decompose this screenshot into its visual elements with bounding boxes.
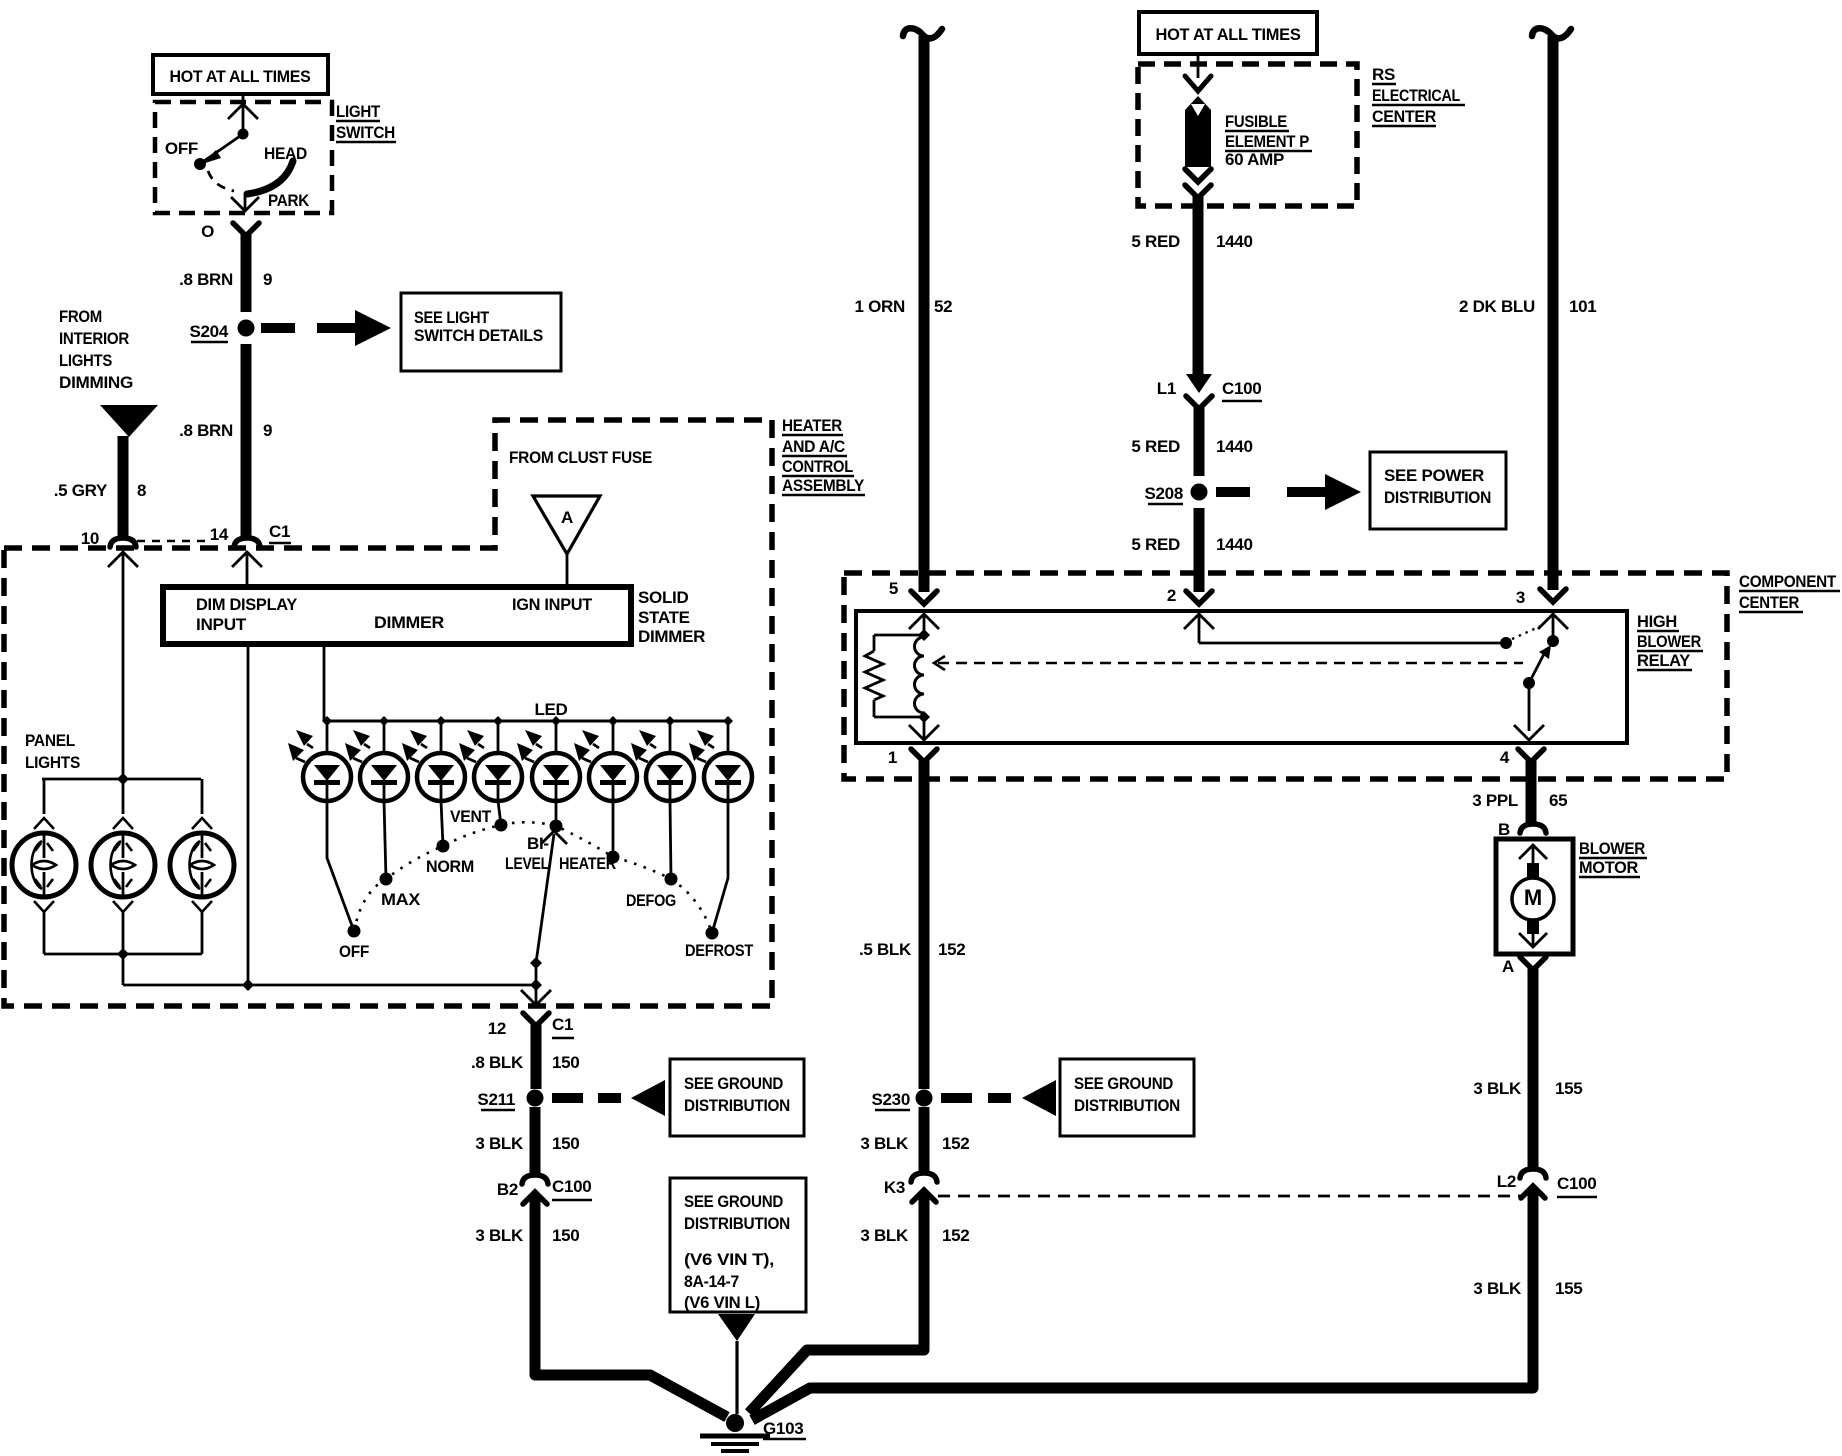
svg-text:LEVEL: LEVEL	[505, 854, 549, 873]
svg-text:5 RED: 5 RED	[1131, 437, 1180, 456]
relay resistor (parallel with coil)	[874, 634, 924, 637]
svg-text:PANEL: PANEL	[25, 731, 75, 750]
svg-text:AND A/C: AND A/C	[782, 437, 845, 456]
svg-text:IGN INPUT: IGN INPUT	[512, 595, 593, 614]
relay coil	[915, 637, 925, 713]
LED 6 cathode wire to contact	[612, 801, 615, 857]
HOT AT ALL TIMES box (left)	[153, 55, 328, 94]
svg-text:HEATER: HEATER	[782, 416, 842, 435]
wire 5 RED 1440 (3)	[1194, 508, 1205, 592]
svg-text:LED: LED	[534, 700, 567, 719]
svg-text:DISTRIBUTION: DISTRIBUTION	[1384, 488, 1491, 507]
svg-text:B: B	[1498, 820, 1510, 839]
dashed lead and arrow from ground distribution (S211)	[552, 1093, 583, 1103]
LED 3	[402, 716, 465, 801]
svg-text:FROM: FROM	[59, 307, 102, 326]
svg-text:.8 BRN: .8 BRN	[179, 421, 233, 440]
connector B2 C100	[522, 1175, 548, 1184]
svg-text:(V6 VIN L): (V6 VIN L)	[684, 1293, 760, 1312]
wire .8 BRN 9 upper	[241, 234, 252, 312]
svg-text:A: A	[561, 508, 573, 527]
triangle to ground ref	[718, 1314, 755, 1341]
svg-text:150: 150	[552, 1053, 579, 1072]
svg-text:FROM CLUST FUSE: FROM CLUST FUSE	[509, 448, 652, 467]
relay pin 1 connector	[911, 749, 937, 762]
svg-text:RELAY: RELAY	[1637, 651, 1691, 670]
LED 7 cathode wire to contact	[670, 801, 671, 879]
svg-text:3 BLK: 3 BLK	[1473, 1079, 1522, 1098]
svg-text:4: 4	[1500, 748, 1510, 767]
svg-text:DISTRIBUTION: DISTRIBUTION	[1074, 1096, 1180, 1115]
svg-text:MOTOR: MOTOR	[1579, 858, 1638, 877]
svg-text:LIGHT: LIGHT	[336, 102, 381, 121]
svg-text:1: 1	[888, 748, 897, 767]
svg-text:SOLID: SOLID	[638, 588, 688, 607]
LED 7	[631, 716, 694, 801]
LED 4	[459, 716, 522, 801]
dashed lead and arrow to see power distribution	[1216, 487, 1250, 497]
svg-text:C100: C100	[1557, 1174, 1596, 1193]
svg-text:INPUT: INPUT	[196, 615, 247, 634]
SEE GROUND DISTRIBUTION box (right)	[1060, 1059, 1194, 1136]
svg-text:C1: C1	[269, 522, 290, 541]
LED 1 cathode wire to contact	[327, 801, 354, 931]
LED 2	[345, 716, 408, 801]
svg-text:LIGHTS: LIGHTS	[59, 351, 112, 370]
svg-text:150: 150	[552, 1226, 579, 1245]
wire 2 DK BLU 101 with continuation squiggle	[1532, 28, 1571, 38]
svg-text:BLOWER: BLOWER	[1637, 632, 1701, 651]
svg-text:VENT: VENT	[450, 807, 492, 826]
LED 3 cathode wire to contact	[441, 801, 443, 846]
svg-text:2 DK BLU: 2 DK BLU	[1459, 297, 1535, 316]
svg-text:INTERIOR: INTERIOR	[59, 329, 129, 348]
svg-text:DISTRIBUTION: DISTRIBUTION	[684, 1096, 790, 1115]
heater and A/C control assembly dashed box	[4, 420, 772, 1006]
svg-text:5: 5	[889, 579, 898, 598]
svg-text:3 BLK: 3 BLK	[860, 1134, 909, 1153]
svg-text:DIM DISPLAY: DIM DISPLAY	[196, 595, 298, 614]
svg-text:MAX: MAX	[381, 890, 421, 909]
dashed lead and arrow to see light switch details	[261, 323, 295, 333]
switch wiper arrow	[536, 834, 554, 963]
component center dashed box	[844, 573, 1727, 779]
light switch internals	[242, 94, 245, 134]
splice S230	[916, 1090, 933, 1107]
relay switch dotted open-position line	[1512, 625, 1543, 639]
svg-text:1440: 1440	[1216, 535, 1253, 554]
svg-text:OFF: OFF	[165, 139, 198, 158]
svg-text:150: 150	[552, 1134, 579, 1153]
HOT AT ALL TIMES box (right)	[1139, 12, 1317, 54]
RS electrical center dashed box	[1138, 64, 1357, 206]
svg-text:8A-14-7: 8A-14-7	[684, 1272, 739, 1291]
svg-text:SEE LIGHT: SEE LIGHT	[414, 308, 490, 327]
svg-text:OFF: OFF	[339, 942, 369, 961]
svg-text:12: 12	[488, 1019, 506, 1038]
splice S204	[238, 320, 255, 337]
svg-text:HOT AT ALL TIMES: HOT AT ALL TIMES	[1156, 25, 1301, 44]
wire from panel lights to dimmer ground rail	[122, 954, 125, 985]
panel lamp 1	[12, 779, 76, 954]
svg-text:101: 101	[1569, 297, 1596, 316]
splice S208	[1191, 484, 1208, 501]
svg-text:S208: S208	[1144, 484, 1183, 503]
svg-text:DISTRIBUTION: DISTRIBUTION	[684, 1214, 790, 1233]
svg-text:CENTER: CENTER	[1372, 107, 1436, 126]
panel lamp 2	[91, 779, 155, 954]
SEE POWER DISTRIBUTION box	[1370, 452, 1506, 529]
svg-text:9: 9	[263, 421, 272, 440]
svg-text:A: A	[1502, 957, 1514, 976]
relay pin 4 internal arrow	[1528, 683, 1531, 731]
svg-text:O: O	[201, 222, 214, 241]
svg-text:SEE GROUND: SEE GROUND	[1074, 1074, 1173, 1093]
svg-text:STATE: STATE	[638, 608, 690, 627]
svg-text:8: 8	[137, 481, 146, 500]
wire 3 PPL 65	[1526, 760, 1537, 825]
relay coil input arrow (pin 5)	[909, 614, 939, 629]
panel lights top bus	[42, 778, 201, 781]
svg-text:60 AMP: 60 AMP	[1225, 150, 1284, 169]
svg-text:RS: RS	[1372, 65, 1395, 84]
solid state dimmer box	[163, 587, 631, 644]
svg-text:COMPONENT: COMPONENT	[1739, 572, 1837, 591]
svg-text:HEATER: HEATER	[559, 854, 616, 873]
rotary switch dotted arc	[354, 822, 712, 933]
LED 1	[288, 716, 351, 801]
svg-text:SWITCH: SWITCH	[336, 123, 395, 142]
svg-text:G103: G103	[763, 1419, 803, 1438]
blower motor internals	[1519, 845, 1547, 859]
svg-text:S204: S204	[189, 322, 228, 341]
connector K3	[911, 1173, 937, 1182]
svg-text:(V6 VIN T),: (V6 VIN T),	[684, 1250, 774, 1269]
svg-text:HIGH: HIGH	[1637, 612, 1677, 631]
svg-text:9: 9	[263, 270, 272, 289]
splice S211	[527, 1090, 544, 1107]
connector A below blower motor	[1520, 957, 1546, 970]
svg-text:PARK: PARK	[268, 191, 310, 210]
svg-text:CONTROL: CONTROL	[782, 457, 853, 476]
svg-text:SWITCH DETAILS: SWITCH DETAILS	[414, 326, 543, 345]
wire 5 RED 1440 (2)	[1194, 407, 1205, 476]
svg-text:S230: S230	[871, 1090, 910, 1109]
wire 3 BLK 152 upper	[919, 1107, 930, 1172]
svg-text:52: 52	[934, 297, 952, 316]
LED bus wire	[324, 720, 728, 723]
dashed lead and arrow from ground distribution (S230)	[941, 1093, 972, 1103]
svg-text:1440: 1440	[1216, 437, 1253, 456]
wire .5 BLK 152	[919, 760, 930, 1089]
svg-text:BI-: BI-	[527, 834, 549, 853]
LED 4 cathode wire to contact	[498, 801, 501, 825]
LED 5 cathode wire to contact	[555, 801, 558, 826]
svg-text:3 BLK: 3 BLK	[1473, 1279, 1522, 1298]
wire .8 BRN 9 lower	[241, 344, 252, 539]
LED 2 cathode wire to contact	[384, 801, 386, 879]
LED 8 cathode wire to contact	[712, 801, 728, 933]
relay pin 2 internal arrow and wire	[1184, 614, 1214, 629]
blower motor box	[1496, 839, 1573, 954]
LED 8	[689, 716, 752, 801]
svg-text:SEE GROUND: SEE GROUND	[684, 1192, 783, 1211]
svg-text:L2: L2	[1497, 1172, 1516, 1191]
wire .8 BLK 150	[531, 1024, 542, 1089]
svg-text:.8 BLK: .8 BLK	[471, 1053, 524, 1072]
svg-text:155: 155	[1555, 1079, 1582, 1098]
wire 5 RED 1440 (1)	[1193, 196, 1204, 377]
svg-text:3 PPL: 3 PPL	[1472, 791, 1518, 810]
svg-text:152: 152	[942, 1226, 969, 1245]
svg-text:B2: B2	[497, 1180, 518, 1199]
svg-text:65: 65	[1549, 791, 1567, 810]
wire 3 BLK 150 upper	[530, 1107, 541, 1174]
wire 1 ORN 52 with continuation squiggle	[903, 28, 942, 38]
SEE GROUND DISTRIBUTION box (left)	[670, 1059, 804, 1136]
wire .5 GRY 8	[118, 436, 129, 540]
svg-text:SEE POWER: SEE POWER	[1384, 466, 1484, 485]
svg-text:HEAD: HEAD	[264, 144, 307, 163]
svg-text:C100: C100	[552, 1177, 591, 1196]
svg-text:5 RED: 5 RED	[1131, 535, 1180, 554]
svg-text:K3: K3	[884, 1178, 905, 1197]
thin dashed connector link	[137, 540, 209, 543]
svg-text:DEFROST: DEFROST	[685, 941, 754, 960]
dashed connector line K3 to L2	[938, 1195, 1522, 1198]
LED 6	[574, 716, 637, 801]
svg-text:C1: C1	[552, 1015, 573, 1034]
svg-text:L1: L1	[1157, 379, 1176, 398]
triangle A (from cluster fuse)	[533, 496, 600, 554]
relay mechanical link dashed line with arrowhead	[934, 656, 945, 670]
svg-text:1 ORN: 1 ORN	[855, 297, 905, 316]
svg-text:S211: S211	[477, 1090, 515, 1109]
wire from connector 14 to dimmer	[246, 552, 249, 587]
svg-text:HOT AT ALL TIMES: HOT AT ALL TIMES	[170, 67, 311, 86]
ground G103	[726, 1414, 744, 1432]
svg-text:2: 2	[1167, 586, 1176, 605]
light switch dashed box	[155, 102, 332, 213]
incoming triangle (from interior lights dimming)	[100, 405, 158, 437]
dimmer output wire to ground splice	[247, 644, 250, 985]
svg-text:BLOWER: BLOWER	[1579, 839, 1645, 858]
svg-text:ELECTRICAL: ELECTRICAL	[1372, 86, 1460, 105]
svg-text:FUSIBLE: FUSIBLE	[1225, 112, 1287, 131]
relay pin 4 connector	[1518, 749, 1544, 762]
svg-text:DEFOG: DEFOG	[626, 891, 676, 910]
svg-text:152: 152	[942, 1134, 969, 1153]
svg-text:3 BLK: 3 BLK	[475, 1134, 524, 1153]
svg-text:SEE GROUND: SEE GROUND	[684, 1074, 783, 1093]
svg-text:3: 3	[1516, 588, 1525, 607]
svg-text:ELEMENT P: ELEMENT P	[1225, 132, 1309, 151]
LED 5	[517, 716, 580, 801]
svg-text:ASSEMBLY: ASSEMBLY	[782, 476, 865, 495]
relay switch armature	[1529, 652, 1545, 683]
svg-text:C100: C100	[1222, 379, 1261, 398]
svg-text:152: 152	[938, 940, 965, 959]
svg-text:DIMMING: DIMMING	[59, 373, 133, 392]
svg-text:1440: 1440	[1216, 232, 1253, 251]
svg-text:.5 GRY: .5 GRY	[54, 481, 108, 500]
connector L2 C100	[1520, 1169, 1546, 1178]
connector 12 C1	[523, 1013, 549, 1026]
svg-text:5 RED: 5 RED	[1131, 232, 1180, 251]
connector O below light switch	[233, 223, 259, 236]
svg-text:NORM: NORM	[426, 857, 474, 876]
svg-text:3 BLK: 3 BLK	[860, 1226, 909, 1245]
svg-text:.8 BRN: .8 BRN	[179, 270, 233, 289]
high blower relay box	[856, 611, 1627, 743]
svg-text:.5 BLK: .5 BLK	[859, 940, 912, 959]
svg-text:10: 10	[81, 529, 99, 548]
svg-text:14: 14	[210, 525, 229, 544]
wire 3 BLK 155 upper	[1528, 968, 1539, 1168]
wire from connector 10 into panel lights	[122, 552, 125, 779]
dimmer output wire to LED bus	[323, 644, 326, 721]
SEE LIGHT SWITCH DETAILS box	[401, 293, 561, 371]
panel lights bottom bus	[44, 953, 202, 956]
connector B into blower motor	[1520, 824, 1546, 833]
svg-text:3 BLK: 3 BLK	[475, 1226, 524, 1245]
panel lamp 3	[170, 779, 234, 954]
svg-text:DIMMER: DIMMER	[638, 627, 705, 646]
svg-text:CENTER: CENTER	[1739, 593, 1799, 612]
dimmer ground rail wire	[123, 984, 536, 987]
svg-text:DIMMER: DIMMER	[374, 613, 444, 632]
fusible element P	[1197, 54, 1200, 78]
svg-text:155: 155	[1555, 1279, 1582, 1298]
svg-text:LIGHTS: LIGHTS	[25, 753, 80, 772]
wiper junction wire	[535, 963, 538, 985]
SEE GROUND DISTRIBUTION (V6) box	[670, 1178, 806, 1312]
connector L1 C100	[1186, 374, 1212, 393]
relay coil output arrow (pin 1)	[923, 717, 926, 739]
svg-text:M: M	[1524, 885, 1542, 910]
